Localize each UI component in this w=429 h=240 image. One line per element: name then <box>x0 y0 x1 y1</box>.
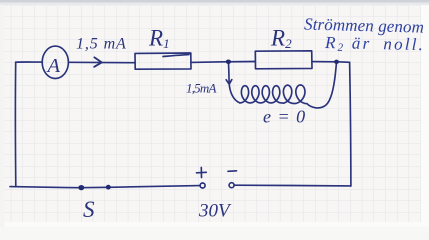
battery terminal circle plus <box>200 183 205 188</box>
battery plus sign <box>197 168 207 178</box>
wire node to top-right corner <box>337 61 350 64</box>
svg-text:30V: 30V <box>198 201 232 222</box>
inductor coil entry curve <box>229 83 240 103</box>
resistor R1 <box>135 53 191 69</box>
svg-text:e = 0: e = 0 <box>263 107 306 127</box>
node dot right <box>334 60 339 64</box>
right edge band <box>421 5 429 227</box>
wire switch to battery <box>109 186 201 188</box>
inductor branch arrow head <box>226 80 232 85</box>
svg-text:1,5mA: 1,5mA <box>186 81 216 96</box>
resistor R2 <box>255 51 312 69</box>
resistor R1 top re-stroke <box>163 55 189 57</box>
svg-text:1,5 mA: 1,5 mA <box>76 36 127 53</box>
svg-text:S: S <box>83 197 95 222</box>
node dot left <box>226 60 231 65</box>
inductor branch drop wire <box>228 63 231 83</box>
wire left vertical <box>14 62 16 187</box>
switch dot right <box>106 185 111 190</box>
switch S wire <box>79 186 109 188</box>
wire ammeter to R1 <box>70 61 136 63</box>
switch dot left <box>78 185 84 190</box>
wire battery to bottom-right corner <box>234 184 351 187</box>
wire top-left horizontal <box>16 61 42 63</box>
battery minus sign <box>228 170 237 173</box>
wire R1 to R2 through node <box>191 61 255 64</box>
bottom edge band <box>0 222 429 227</box>
inductor exit curve up to node <box>307 62 337 108</box>
wire right vertical <box>350 62 351 186</box>
battery terminal circle minus <box>229 183 234 188</box>
ammeter A <box>42 46 68 78</box>
wire bottom-left <box>10 187 79 188</box>
current arrow head on top wire <box>94 57 102 66</box>
inductor L1 coil loops <box>240 85 307 104</box>
svg-text:A: A <box>46 55 61 77</box>
wire R2 to right node <box>312 61 337 63</box>
left edge band <box>0 5 5 227</box>
top edge band <box>0 0 429 3</box>
